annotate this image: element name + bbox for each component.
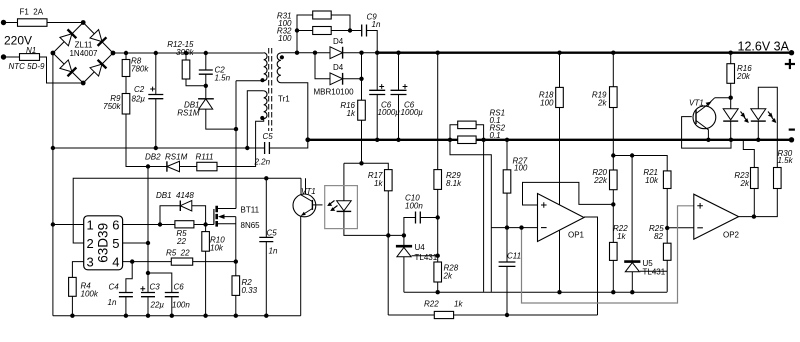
- node R18 rail: [557, 51, 561, 55]
- op-amp IC 63D39 body: [84, 216, 123, 270]
- svg-text:N1: N1: [26, 46, 36, 55]
- bridge diode bottom-left: [60, 60, 72, 72]
- capacitor C9 1n plates: [362, 25, 367, 37]
- bar opto LED: [337, 210, 352, 212]
- terminal dot AC live: [1, 20, 6, 25]
- opto light arrow 2: [332, 206, 338, 211]
- wire C11 bottom to R22 line: [506, 266, 508, 315]
- svg-text:C2: C2: [134, 85, 145, 94]
- node C9 right bracket: [348, 28, 352, 32]
- svg-text:DB1 4148: DB1 4148: [156, 191, 194, 200]
- capacitor C5b 1n plates: [259, 237, 273, 241]
- bar bridge diode top-left: [68, 29, 77, 38]
- op-amp OP2 triangle: [694, 194, 739, 239]
- diode D4a triangle: [330, 47, 343, 59]
- wire R18 bottom down to op-amp common: [559, 108, 561, 292]
- transformer Tr1 primary winding: [264, 53, 267, 81]
- wire NTC to bridge bottom: [40, 57, 84, 83]
- node switch clamp join: [234, 127, 238, 131]
- bar D4b: [342, 73, 344, 85]
- resistor R111: [197, 162, 217, 171]
- svg-text:R111: R111: [196, 153, 214, 162]
- svg-text:4: 4: [112, 254, 119, 269]
- resistor R28: [434, 262, 442, 282]
- svg-text:100k: 100k: [81, 290, 99, 299]
- wire R27 top: [506, 140, 508, 170]
- svg-text:1.5n: 1.5n: [215, 74, 231, 83]
- wire R111 right to aux winding bottom: [217, 119, 264, 167]
- node source R5b: [234, 259, 238, 263]
- transformer Tr1 aux winding: [264, 91, 267, 119]
- wire R32 left: [297, 30, 313, 32]
- phase dot aux: [260, 116, 264, 120]
- node R4 ground: [70, 314, 74, 318]
- transistor VT1 opto base bar: [311, 200, 313, 210]
- wire C3 bottom: [147, 297, 149, 316]
- resistor R25: [663, 243, 671, 260]
- bar bridge diode bottom-left: [68, 68, 77, 77]
- wire C9 right to plus rail: [367, 31, 378, 53]
- label minus output: [789, 129, 795, 131]
- bar DB1 4148: [179, 201, 181, 212]
- svg-text:D4: D4: [333, 63, 344, 72]
- shunt RS1: [458, 121, 476, 129]
- svg-text:1k: 1k: [374, 179, 383, 188]
- node DB2 left: [146, 164, 150, 168]
- svg-text:6: 6: [112, 217, 119, 232]
- transistor VT1 opto circle: [293, 194, 316, 217]
- bar bridge diode top-right: [98, 37, 107, 46]
- wire U4 cathode: [403, 235, 405, 245]
- transistor VT1 base bar: [695, 110, 697, 124]
- svg-text:C5: C5: [267, 229, 278, 238]
- wire R8 to R9: [125, 77, 127, 94]
- node R16-1k LED line: [359, 161, 363, 165]
- svg-text:82µ: 82µ: [132, 95, 146, 104]
- wire R17 bottom: [387, 191, 389, 236]
- node pin4: [130, 259, 134, 263]
- node C5b top feedback: [264, 176, 268, 180]
- capacitor C3 22u plates: [141, 293, 155, 297]
- wire IC pin5: [123, 242, 148, 244]
- svg-text:RS1M: RS1M: [177, 109, 200, 118]
- svg-text:2.2n: 2.2n: [254, 158, 271, 167]
- wire R22a right to OP1 output: [454, 314, 598, 316]
- resistor R16 1k: [358, 100, 366, 120]
- svg-text:TL431: TL431: [643, 268, 666, 277]
- node C3 bracket: [146, 271, 150, 275]
- wire op-amp common line y292: [404, 291, 667, 293]
- node gate right: [203, 222, 207, 226]
- CAPACITORS: [119, 25, 516, 297]
- svg-text:390k: 390k: [176, 48, 194, 57]
- svg-text:1.5k: 1.5k: [778, 156, 794, 165]
- node C6a minus: [375, 138, 379, 142]
- wire U5 cathode vertical: [631, 156, 633, 261]
- svg-text:780k: 780k: [131, 65, 149, 74]
- wire RS1 right bracket sense: [476, 125, 484, 292]
- wire U4 ref: [412, 255, 438, 257]
- transistor VT1 opto base stub: [312, 204, 322, 206]
- wire R16-20k bottom to LED1: [730, 83, 732, 109]
- node D4b cathode: [359, 77, 363, 81]
- node grey branch: [519, 225, 523, 229]
- resistor R23: [751, 168, 759, 189]
- svg-text:2k: 2k: [597, 99, 607, 108]
- node R17 bottom: [386, 233, 390, 237]
- svg-text:5: 5: [112, 236, 119, 251]
- transistor Q1 source arrowhead: [218, 214, 225, 219]
- bar LED2: [751, 120, 766, 122]
- svg-text:8N65: 8N65: [241, 221, 261, 230]
- wire minus output rail thick: [308, 139, 792, 141]
- TRANSFORMER: [264, 53, 281, 119]
- wire drain lead: [217, 208, 236, 210]
- bridge diode top-right: [90, 30, 102, 42]
- wire C5-1n top: [265, 178, 267, 237]
- LED1 light arrow 1: [741, 112, 745, 117]
- IC-63D39: [84, 216, 123, 270]
- wire U5 ref to R25: [640, 270, 667, 272]
- wire IC pin1: [53, 224, 84, 226]
- wire grey OP1 minus node to OP2 plus input: [522, 206, 694, 303]
- svg-text:12.6V 3A: 12.6V 3A: [738, 40, 790, 54]
- wire DB2 R111 line left part: [148, 166, 167, 168]
- wire LED2 cathode: [757, 121, 759, 140]
- wire R18 top: [559, 53, 561, 88]
- svg-text:2k: 2k: [740, 179, 750, 188]
- node U5 bracket: [630, 153, 634, 157]
- wire R16-20k top: [730, 53, 732, 64]
- capacitor C4 1n plates: [119, 293, 133, 297]
- svg-text:1n: 1n: [269, 247, 278, 256]
- svg-text:D4: D4: [333, 37, 344, 46]
- svg-text:1: 1: [87, 217, 94, 232]
- wire switch node vertical: [235, 81, 237, 209]
- svg-text:22k: 22k: [593, 176, 608, 185]
- svg-text:TL431: TL431: [415, 253, 438, 262]
- svg-text:NTC 5D-9: NTC 5D-9: [9, 62, 46, 71]
- capacitor C2b 1.5n plates: [199, 70, 213, 74]
- fuse F1: [18, 19, 48, 27]
- wire R30 bottom to OP2 output: [739, 189, 778, 217]
- transistor Q1 channel bars: [215, 206, 218, 227]
- MOSFET-BT11: [214, 206, 236, 227]
- wire transformer secondary top to rail: [281, 52, 330, 54]
- node R8 top: [124, 51, 128, 55]
- wire line A horizontal y148: [53, 147, 265, 149]
- bar DB1 RS1M: [198, 98, 214, 100]
- node shunt left: [448, 138, 452, 142]
- transistor VT1 opto emitter lead: [301, 209, 312, 216]
- svg-text:R5 22: R5 22: [166, 249, 190, 258]
- svg-text:100: 100: [514, 164, 528, 173]
- wire opto emitter down to ground rail: [300, 216, 302, 316]
- op-amp OP2 minus sign: [697, 227, 703, 229]
- regulator U4 TL431 cathode bar: [396, 245, 412, 248]
- resistor R5a gate: [175, 221, 194, 228]
- svg-text:U4: U4: [415, 243, 426, 252]
- node R28 bottom: [436, 290, 440, 294]
- resistor R12-15: [182, 60, 190, 79]
- resistor R17: [385, 170, 393, 191]
- wire R10 bottom: [205, 251, 207, 316]
- node OP2 output: [752, 214, 756, 218]
- regulator U4 TL431 triangle: [397, 247, 411, 256]
- resistor R30: [774, 168, 782, 189]
- wire RS1 left bracket: [450, 125, 491, 292]
- resistor R32: [313, 27, 332, 35]
- THICK-RAILS: [308, 53, 792, 140]
- transistor Q1 BT11 gate bar: [213, 209, 215, 225]
- wire IC pin3 to R4: [72, 262, 83, 278]
- wire C10 right: [420, 217, 437, 219]
- wire R17 node down to R22 line: [387, 235, 389, 315]
- phase dot primary: [260, 78, 264, 82]
- svg-text:1k: 1k: [347, 109, 356, 118]
- node R12-15 top: [184, 51, 188, 55]
- resistor R2: [232, 276, 240, 296]
- svg-text:OP2: OP2: [723, 231, 740, 240]
- svg-text:C11: C11: [507, 252, 521, 261]
- diode DB1 RS1M triangle: [199, 99, 213, 109]
- wire R17 top line y163: [344, 163, 388, 169]
- wire R5b right to source node: [193, 261, 236, 263]
- wire R22b bottom: [612, 260, 614, 292]
- wire U4 anode: [403, 257, 405, 293]
- bridge rectifier ZL11 frame: [53, 23, 113, 84]
- wire R16-1k bottom to LED line: [361, 120, 363, 163]
- regulator U5 TL431 cathode bar: [624, 260, 640, 263]
- svg-text:C3: C3: [150, 283, 161, 292]
- wire C2 top: [155, 53, 157, 95]
- wire R20 bottom to plus node: [612, 190, 614, 243]
- wire U5 anode: [631, 272, 633, 292]
- wire C5-1n bottom: [265, 242, 267, 316]
- svg-text:VT1: VT1: [301, 187, 316, 196]
- wire D4b cathode right and up: [343, 53, 362, 79]
- plus sign C6a: [379, 84, 384, 89]
- svg-text:F1 2A: F1 2A: [20, 8, 44, 17]
- wire opto LED cathode: [344, 211, 404, 235]
- capacitor C5 2.2n plates: [265, 142, 270, 154]
- svg-text:10k: 10k: [210, 244, 224, 253]
- wire R29 top: [437, 53, 439, 170]
- capacitor C6a 1000u plates: [369, 90, 385, 94]
- resistor R19: [610, 87, 618, 108]
- plus sign C6b: [403, 84, 408, 89]
- wire OP1 output down to R22 line: [584, 217, 598, 315]
- bar D4a: [342, 47, 344, 59]
- bar DB2 RS1M: [166, 161, 168, 171]
- LED1 light arrow 2: [744, 117, 748, 122]
- node lineA x53: [51, 146, 55, 150]
- diode D4b triangle: [330, 73, 343, 85]
- capacitor C6c 100n plates: [165, 293, 179, 297]
- plus sign C3: [140, 286, 145, 291]
- wire clamp node to DB1 cathode: [205, 86, 207, 99]
- wire C2b top: [205, 53, 207, 70]
- thermistor N1 NTC 5D-9: [20, 54, 40, 61]
- wire R31 left bracket: [297, 15, 313, 53]
- DIODES: [53, 23, 766, 212]
- wire OP2 minus input: [667, 227, 694, 229]
- svg-text:1000µ: 1000µ: [401, 108, 424, 117]
- node OP2 minus R25: [665, 226, 669, 230]
- svg-text:3: 3: [87, 254, 94, 269]
- wire line A right of C5 to minus rail start: [269, 140, 307, 148]
- transistor Q1 source arrow line: [218, 217, 236, 224]
- node C11 R22a: [505, 313, 509, 317]
- bridge diode bottom-right: [90, 64, 102, 76]
- node U4 cathode: [402, 233, 406, 237]
- node clamp: [204, 84, 208, 88]
- svg-text:20k: 20k: [736, 72, 751, 81]
- capacitor C11 plates: [499, 262, 516, 266]
- wire R29 bottom to R28: [437, 189, 439, 262]
- node U4 ref: [436, 254, 440, 258]
- svg-text:100n: 100n: [405, 202, 423, 211]
- wire C4 bottom: [125, 297, 127, 316]
- node R2 ground: [234, 314, 238, 318]
- wire switch node primary bottom: [236, 80, 264, 82]
- wire plus output rail thick: [377, 52, 791, 54]
- node R19 rail: [611, 51, 615, 55]
- svg-text:VT1: VT1: [689, 99, 704, 108]
- svg-text:C5: C5: [263, 132, 274, 141]
- op-amp OP1 triangle: [538, 194, 585, 242]
- resistor R5b: [171, 258, 192, 265]
- TL431-U4: [396, 246, 412, 257]
- node common R22b: [611, 290, 615, 294]
- svg-text:C6: C6: [174, 283, 185, 292]
- svg-text:R22: R22: [424, 300, 439, 309]
- wire C2 bottom to line A: [155, 99, 157, 148]
- wire IC pin2 jog up and feedback line y178: [73, 178, 301, 243]
- wire VT1 collector line: [715, 97, 731, 99]
- node bridge right: [111, 51, 116, 56]
- op-amp OP1 plus sign: [541, 202, 547, 208]
- wire R5a right to gate: [194, 224, 214, 226]
- svg-text:1k: 1k: [454, 300, 463, 309]
- wire opto LED anode drop: [343, 163, 345, 201]
- wire C6-100n bracket: [148, 273, 172, 293]
- transformer Tr1 core: [269, 48, 272, 131]
- node R29 rail: [436, 51, 440, 55]
- node C2b top: [204, 51, 208, 55]
- svg-text:Tr1: Tr1: [278, 95, 290, 104]
- node pin1 x53: [51, 222, 55, 226]
- node aux top lineA: [245, 146, 249, 150]
- svg-text:8.1k: 8.1k: [446, 179, 462, 188]
- node C10 right: [436, 215, 440, 219]
- node VT1 emitter rail: [706, 138, 710, 142]
- node R19 bracket left: [611, 153, 615, 157]
- node R27 rail: [505, 138, 509, 142]
- wire MOSFET source vertical: [235, 217, 237, 276]
- wire R19 bottom crossing rail to bracket: [612, 108, 614, 156]
- node LED1 cathode rail: [729, 138, 733, 142]
- LED2 light arrow 1: [768, 112, 772, 117]
- node gate left: [158, 222, 162, 226]
- resistor R18: [556, 87, 564, 107]
- wire R23 top jog to rail: [743, 140, 754, 168]
- node common U5 anode: [630, 290, 634, 294]
- capacitor C10 100n plates: [416, 212, 421, 224]
- capacitor C2 82u plates: [148, 95, 163, 99]
- wire R22a line: [388, 314, 434, 316]
- wire C3 top: [147, 273, 149, 293]
- wire R10 top: [205, 225, 207, 232]
- node C6b top: [396, 51, 400, 55]
- wire C4 jog from pin4 node: [126, 262, 132, 293]
- plus sign C2 82u: [150, 87, 155, 92]
- wire C6a bottom: [376, 95, 378, 140]
- node C2 bottom lineA: [154, 146, 158, 150]
- resistor R8: [122, 60, 130, 77]
- node R16 LED1: [729, 96, 733, 100]
- node C2 top: [154, 51, 158, 55]
- resistor R16 20k: [727, 64, 735, 84]
- VT1-RIGHT: [693, 98, 716, 130]
- wire AC neutral to NTC: [4, 56, 20, 58]
- svg-text:100n: 100n: [172, 301, 190, 310]
- transistor VT1 opto emitter arrowhead: [301, 212, 306, 216]
- PLUS-SIGNS: [140, 84, 407, 291]
- transistor VT1 opto collector lead: [301, 178, 312, 201]
- wire R19 top: [612, 53, 614, 87]
- wire fuse to bridge top: [47, 22, 83, 24]
- wire LED1 cathode: [730, 121, 732, 140]
- wire R4 bottom: [71, 296, 73, 315]
- transistor VT1 emitter lead up: [696, 98, 715, 114]
- OPAMPS: [538, 194, 739, 242]
- wire R20 top: [612, 156, 614, 171]
- wire IC pin6 to gate node: [123, 224, 175, 226]
- node common R18: [557, 290, 561, 294]
- wire transformer secondary bottom to minus rail start: [281, 83, 308, 140]
- wire node DC-minus vertical x53: [52, 53, 54, 316]
- wire AC live input to fuse: [4, 22, 18, 24]
- node bridge top: [81, 20, 86, 25]
- svg-text:82: 82: [654, 232, 663, 241]
- transistor VT1 emitter arrowhead: [706, 102, 712, 107]
- svg-text:2k: 2k: [443, 272, 453, 281]
- wire C6a top: [376, 53, 378, 91]
- diode DB2 RS1M triangle: [167, 161, 180, 171]
- node minus rail start: [305, 137, 310, 142]
- transformer Tr1 secondary winding: [277, 53, 281, 83]
- node bridge left: [51, 51, 56, 56]
- regulator U5 TL431 triangle: [625, 263, 639, 272]
- svg-text:100: 100: [540, 99, 554, 108]
- resistor R9: [122, 94, 130, 115]
- wire C6-100n bottom: [171, 297, 173, 316]
- svg-text:22: 22: [176, 237, 186, 246]
- node shunt right: [481, 138, 485, 142]
- node C5b ground: [264, 314, 268, 318]
- wire R21 bottom to OP2 minus node: [666, 189, 668, 244]
- resistor R27: [503, 170, 511, 193]
- svg-text:100: 100: [278, 34, 292, 43]
- opto light arrow 1: [329, 201, 335, 206]
- wire LED2 anode bracket to R30: [758, 87, 777, 167]
- shunt RS2: [458, 136, 476, 144]
- op-amp OP2 plus sign: [697, 203, 703, 209]
- wire C2b bottom: [205, 74, 207, 86]
- bar bridge diode bottom-right: [98, 60, 107, 69]
- node bridge bottom: [81, 81, 86, 86]
